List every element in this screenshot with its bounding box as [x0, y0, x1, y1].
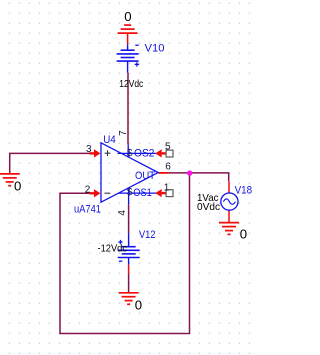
svg-text:$: $: [127, 148, 133, 159]
svg-text:3: 3: [86, 144, 92, 155]
svg-text:12Vdc: 12Vdc: [119, 78, 143, 90]
svg-text:0: 0: [240, 226, 247, 241]
svg-text:0: 0: [135, 298, 142, 313]
svg-text:V10: V10: [145, 43, 165, 55]
svg-text:V18: V18: [235, 185, 253, 197]
svg-text:OUT: OUT: [135, 170, 155, 182]
svg-text:6: 6: [165, 161, 171, 172]
svg-text:1: 1: [164, 183, 170, 194]
svg-text:0Vdc: 0Vdc: [197, 201, 220, 213]
svg-text:OS2: OS2: [134, 147, 155, 159]
svg-text:2: 2: [85, 184, 91, 195]
svg-text:0: 0: [14, 178, 21, 193]
svg-text:V12: V12: [139, 229, 156, 241]
svg-text:7: 7: [118, 130, 129, 136]
svg-text:4: 4: [117, 210, 128, 216]
svg-text:uA741: uA741: [74, 203, 101, 215]
svg-text:5: 5: [165, 142, 171, 153]
svg-text:-12Vdc: -12Vdc: [98, 242, 128, 254]
svg-text:0: 0: [124, 9, 131, 24]
svg-text:$: $: [127, 187, 133, 198]
svg-text:U4: U4: [103, 134, 116, 146]
svg-text:OS1: OS1: [133, 187, 152, 199]
